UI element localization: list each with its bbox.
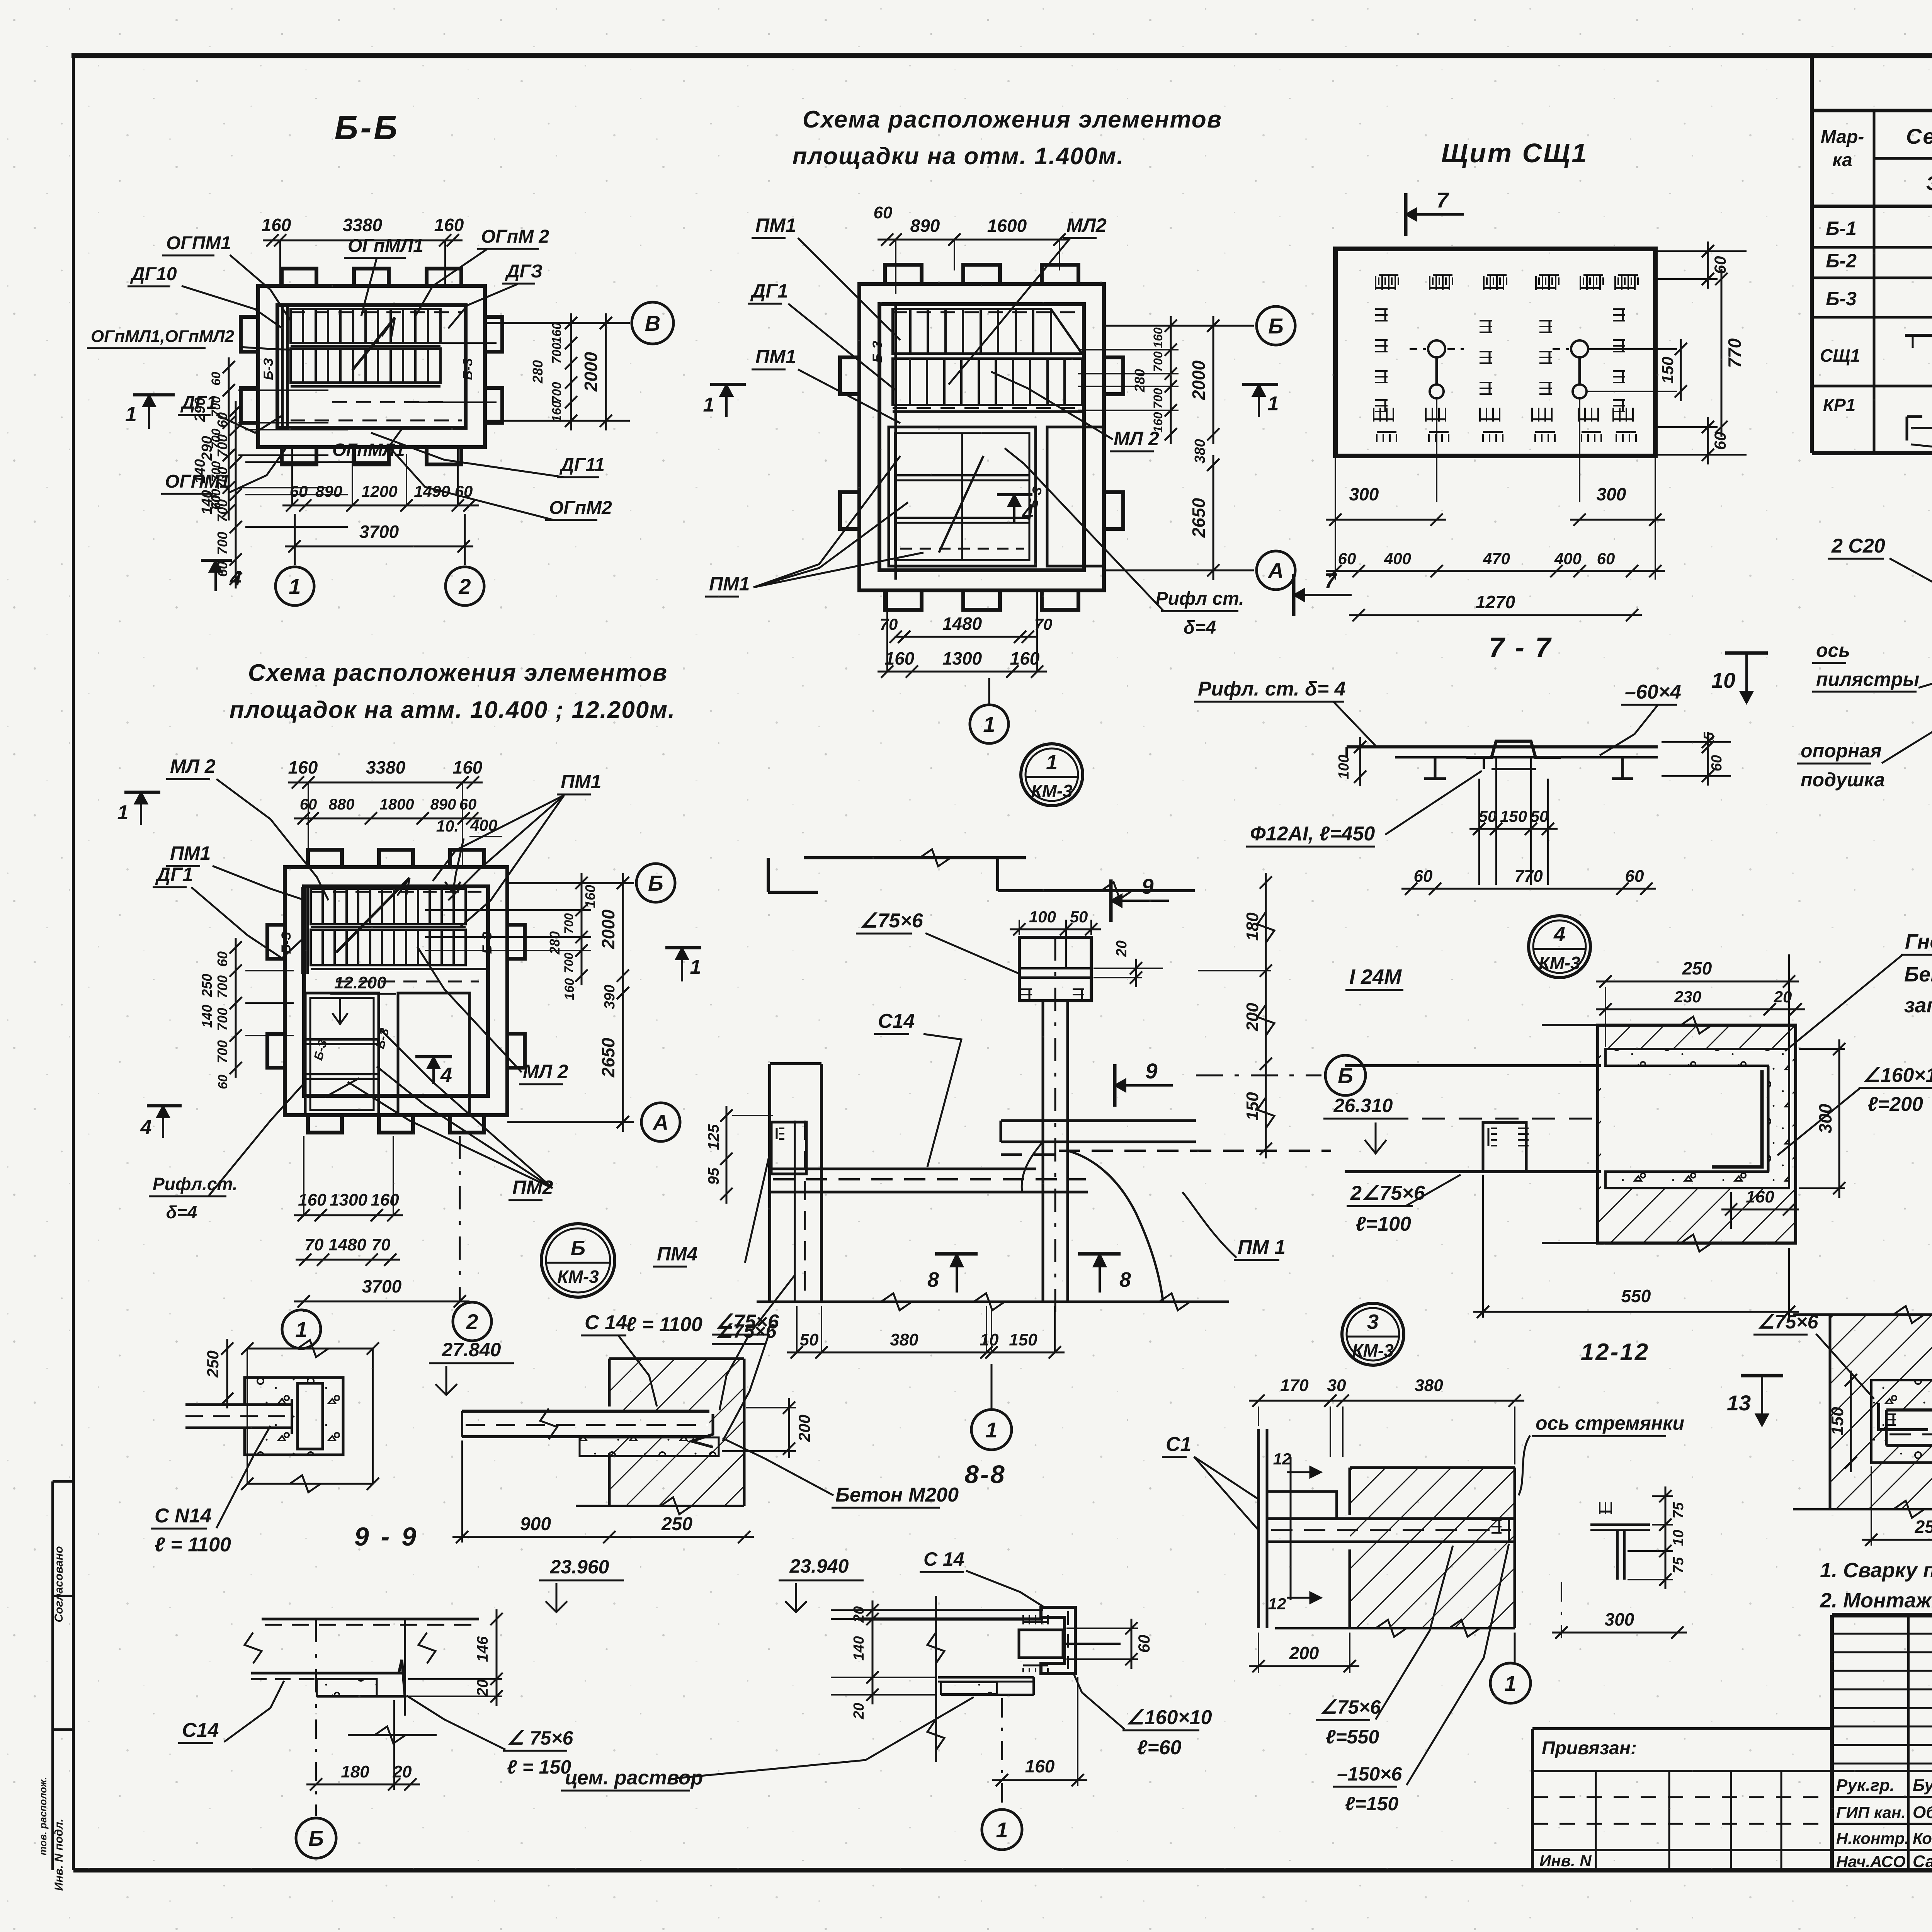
detail 12-12 axis circle 1 — [1514, 1633, 1516, 1662]
plan 1.400 bottom dims — [895, 636, 1037, 638]
plan 10.400 top dimension chains — [288, 782, 483, 784]
plan Б-Б section marker 4 bottom — [201, 559, 232, 562]
node circle 1 КМ-3 — [1021, 744, 1083, 806]
node circle 3 КМ-3 — [1342, 1303, 1404, 1365]
plan Б-Б vertical dims right — [570, 313, 572, 430]
heading Схема расположения элементов площадок на отм. 10.400-12.200м — [230, 660, 676, 723]
plan 1.400 wall ring — [840, 265, 1123, 610]
heading Схема расположения элементов площадки на отм. 1.400м. — [793, 106, 1222, 170]
panel СЩ1 bottom dims — [1326, 458, 1665, 621]
detail 9-9 labels — [151, 1426, 418, 1556]
table row СЩ1 sketch — [1820, 294, 1932, 382]
detail 23.960 landing section — [245, 1556, 624, 1743]
plan 10.400 wall ring — [267, 850, 525, 1133]
plan Б-Б axis circle В — [485, 322, 630, 324]
detail 4 labels — [1323, 930, 1932, 1235]
plan 1.400 markers — [710, 383, 746, 386]
panel СЩ1 outline — [1335, 249, 1655, 456]
panel СЩ1 weld marks top row — [1376, 275, 1638, 290]
plan 1.400 top dimension chain 60-890-1600 — [878, 239, 1069, 241]
panel СЩ1 section marker 7 top — [1404, 193, 1408, 236]
detail 9-9 plan small — [185, 1339, 379, 1492]
central fragment bottom line — [757, 1301, 1229, 1303]
detail 12-12 labels dims — [1162, 1376, 1684, 1815]
section 7-7 dims — [1336, 732, 1731, 895]
plan 10.400 axis circles 1 2 — [303, 1310, 305, 1312]
detail 12-12 ladder stringer — [1259, 1429, 1515, 1628]
central plan fragment walls top — [768, 849, 1195, 899]
plan Б-Б left dim chain small — [228, 357, 230, 520]
plan Б-Б wall ring — [241, 269, 502, 464]
plan 1.400 axis circle 1 bottom — [988, 678, 990, 704]
table row КР1 sketch — [1823, 378, 1932, 452]
plan 10.400 axis circles Б А — [507, 882, 634, 884]
plan 1.400 left dim chain small — [235, 401, 237, 588]
central fragment section markers 8 — [935, 1252, 978, 1256]
plan Б-Б dimension 3700 — [285, 546, 473, 548]
plan Б-Б bottom dimension chain 60-890-1200-1490-60 — [282, 505, 479, 507]
notes text — [1820, 1559, 1932, 1612]
plan 10.400 inner rooms — [305, 973, 469, 1115]
central fragment right vertical dim chain — [1198, 873, 1274, 1158]
detail 27.840 wall bracket — [429, 1339, 744, 1514]
plan 10.400 vertical dims right — [581, 873, 583, 985]
detail 12-12 wall hatch — [1275, 1468, 1515, 1637]
panel СЩ1 weld marks bottom row — [1374, 408, 1636, 442]
panel СЩ1 weld marks columns — [1375, 309, 1625, 412]
central fragment dims top 100 50 20 — [1010, 908, 1163, 987]
table Ведомость элементов — [1812, 56, 1932, 453]
central fragment section markers 9 — [1109, 879, 1113, 922]
plan 1.400 leader labels — [705, 214, 1244, 638]
detail node2 labels — [1711, 535, 1932, 791]
table row Б-2 — [1826, 247, 1932, 272]
table row Б-1 — [1826, 215, 1932, 241]
section 7-7 labels — [1194, 678, 1681, 847]
panel СЩ1 right dims 60-770-60 — [1707, 241, 1709, 289]
central fragment curved leaders — [1068, 1151, 1163, 1302]
plan 10.400 bottom dims — [294, 1214, 403, 1216]
panel СЩ1 section marker 7 bottom — [1292, 574, 1296, 616]
plan Б-Б top dimension chain 160-3380-160 — [263, 240, 463, 241]
section 7-7 floor plate — [1347, 741, 1658, 779]
plan 10.400 stair flights — [279, 878, 495, 981]
detail 23.960 labels dims — [178, 1609, 574, 1858]
plan 10.400 leader labels — [149, 755, 601, 1222]
detail 4 concrete pocket — [1605, 1049, 1789, 1188]
central fragment horizontal bands — [770, 1121, 1331, 1192]
detail 4 wall hatch — [1542, 1017, 1797, 1252]
panel СЩ1 bolt symbols — [1410, 340, 1607, 502]
central fragment left wall — [770, 1064, 821, 1302]
detail 4 dims — [1473, 954, 1845, 1318]
central fragment left small dims — [705, 1106, 773, 1204]
node circle 4 КМ-3 — [1529, 916, 1590, 978]
detail 27.840 labels dims — [452, 1311, 1006, 1543]
title block main frame — [1832, 1615, 1932, 1870]
plan Б-Б axis circles 1 2 — [294, 514, 296, 565]
plan 1.400 stair flights — [870, 305, 1104, 580]
sheet frame bottom border — [73, 1868, 1932, 1872]
plan Б-Б leader labels right — [328, 226, 612, 520]
title block привязан box — [1532, 1729, 1832, 1870]
plan 10.400 left dim chain — [235, 938, 237, 1078]
left margin stamp boxes — [51, 1481, 54, 1870]
detail 23.940 doorframe section — [779, 1548, 1121, 1762]
title block signature grid — [1832, 1615, 1932, 1871]
detail 13 left concrete and beam — [1871, 1380, 1932, 1463]
central fragment labels — [856, 910, 1286, 1260]
central fragment bottom dim chain — [787, 1352, 1065, 1354]
sheet frame top border — [71, 53, 1932, 58]
central fragment bracket and post — [1019, 937, 1091, 1314]
plan 10.400 markers — [147, 1104, 182, 1107]
plan 1.400 axis circles Б А — [1104, 325, 1254, 327]
detail 4 angle 160x10 — [1712, 1070, 1762, 1167]
panel СЩ1 dim 150 bolts — [1680, 339, 1682, 401]
plan Б-Б leader labels left — [87, 233, 291, 494]
axis Б right of central fragment — [1196, 1075, 1321, 1077]
detail 12-12 right T section — [1552, 1486, 1687, 1639]
plan Б-Б section marker 1 left — [133, 393, 175, 396]
plan Б-Б stair flights — [261, 307, 475, 426]
plan 1.400 vertical dims right — [1170, 316, 1172, 444]
detail 13 left labels dims — [1727, 1310, 1932, 1546]
detail 13 left wall hatch — [1793, 1306, 1932, 1518]
table row Б-3 — [1826, 283, 1932, 310]
detail 4 beam I24M — [1345, 1066, 1768, 1172]
axis circle 1 below central fragment — [991, 1364, 993, 1408]
detail 23.940 labels dims — [561, 1600, 1212, 1850]
node circle Б КМ-3 — [541, 1224, 615, 1297]
sheet frame left border — [72, 56, 75, 1870]
